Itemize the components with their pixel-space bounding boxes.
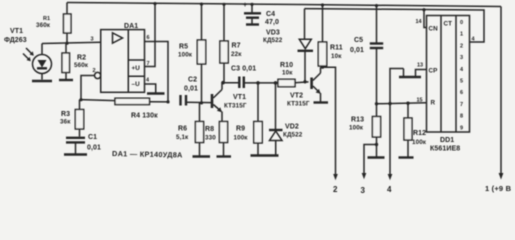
wire +9V right edge drop to terminal 1 [500,7,502,175]
svg-text:VT1: VT1 [233,94,246,101]
ground R13 [368,156,385,158]
svg-text:R8: R8 [205,126,214,133]
ground R2 [59,79,73,81]
svg-text:10к: 10к [331,53,342,60]
wire reset line C5/R13 node to IC R input [377,103,427,104]
svg-text:R: R [431,100,436,107]
svg-text:R13: R13 [351,117,364,124]
svg-text:6: 6 [147,35,150,41]
diode VD3 KD522 [304,9,306,40]
svg-text:0,01: 0,01 [184,86,198,93]
transistor VT2 KT315G [310,78,313,90]
svg-text:14: 14 [416,19,423,25]
op-amp inverting input bubble pin 2 [95,72,101,78]
svg-text:R6: R6 [178,126,187,133]
svg-text:VT2: VT2 [290,93,303,100]
transistor VT1 KT315G [211,94,214,108]
wire terminal 3 [364,145,377,175]
wire CN input pin 14 [424,10,427,28]
svg-text:С5: С5 [354,37,363,44]
resistor R9 100k [257,83,259,122]
ground -U [147,92,165,94]
svg-text:330: 330 [205,135,216,142]
ground VT2 emitter [314,101,329,103]
resistor R13 100k [372,117,380,138]
diode VD2 KD522 [275,83,277,130]
svg-text:15: 15 [417,98,423,104]
svg-text:R11: R11 [330,45,343,52]
resistor R12 100k [407,103,409,118]
svg-text:22к: 22к [231,51,242,58]
svg-text:–U: –U [132,81,141,88]
wire photodiode node to op-amp pin 3 [42,42,101,43]
wire terminal 4 stub to ground [403,69,405,77]
capacitor C3 0,01 [238,77,240,89]
svg-text:КТ315Г: КТ315Г [287,101,310,108]
svg-text:С1: С1 [88,134,97,141]
terminal 2 arrowhead [333,174,338,180]
svg-text:560к: 560к [74,62,89,69]
svg-text:VD3: VD3 [266,30,280,37]
svg-text:1 (+9 В: 1 (+9 В [485,184,512,193]
capacitor C5 0,01 [376,6,378,44]
svg-text:5,1к: 5,1к [176,134,189,141]
svg-text:2: 2 [460,43,463,49]
resistor R1 360k [66,3,68,15]
resistor R4 130k [115,98,150,104]
svg-text:CN: CN [429,26,439,33]
wire C3 to R10 [244,82,278,84]
svg-text:2: 2 [93,68,96,74]
svg-text:R4 130к: R4 130к [131,113,158,120]
svg-text:3: 3 [361,186,366,195]
svg-text:DD1: DD1 [440,137,454,144]
svg-text:+U: +U [132,65,141,72]
wire collector node to terminal 2 [321,67,336,175]
svg-text:КД522: КД522 [263,37,283,44]
capacitor C2 0,01 coupling [179,95,181,106]
wire inverting input [81,76,95,100]
svg-text:С2: С2 [188,77,197,84]
svg-text:DA1 — КР140УД8А: DA1 — КР140УД8А [112,149,183,159]
wire terminal 4 [390,69,404,176]
svg-text:С3 0,01: С3 0,01 [231,66,256,73]
op-amp +U pin 7 wire to rail [145,4,156,67]
svg-text:3: 3 [91,37,94,43]
svg-text:3: 3 [460,55,463,61]
terminal 3 arrowhead [362,173,367,179]
resistor R5 100k [201,4,203,40]
svg-text:7: 7 [460,102,463,108]
wire VT1 collector line to C3 [222,82,239,84]
svg-text:R2: R2 [77,55,86,62]
svg-text:100к: 100к [178,52,193,59]
svg-text:R9: R9 [236,126,245,133]
resistor R11 10k [322,5,324,42]
svg-text:К561ИЕ8: К561ИЕ8 [430,146,460,153]
svg-text:13: 13 [417,63,423,69]
ground photodiode [32,80,52,82]
svg-text:100к: 100к [234,135,249,142]
node dot R1/R2 junction [65,42,68,45]
svg-text:ФД263: ФД263 [4,37,27,44]
ground CP [399,76,421,78]
svg-text:КД522: КД522 [283,132,303,139]
counter IC DD1 K561IE8 box [427,16,470,133]
svg-text:С4: С4 [266,11,275,18]
svg-text:47,0: 47,0 [265,19,279,26]
op-amp triangle symbol [113,33,123,43]
svg-text:CP: CP [429,68,438,75]
svg-text:R7: R7 [232,43,241,50]
capacitor C1 0,01 [66,137,85,139]
wire feedback/base line [81,100,115,101]
svg-text:0: 0 [460,20,463,26]
svg-text:VT1: VT1 [10,28,23,35]
ground R12 [399,156,414,158]
svg-text:0,01: 0,01 [350,47,364,54]
op-amp -U pin 4 wire [145,84,156,93]
resistor R6 5,1k [199,103,201,122]
svg-text:4: 4 [387,185,392,194]
ground R6 [193,155,211,157]
svg-text:360к: 360к [36,22,51,29]
ground C1 [64,153,87,155]
svg-text:0,01: 0,01 [87,145,101,152]
svg-text:+: + [243,2,247,9]
svg-text:R10: R10 [280,62,293,69]
ground R9/VD2 [251,154,279,156]
svg-text:DA1: DA1 [124,23,138,30]
resistor R7 22k [223,4,225,41]
svg-text:10к: 10к [282,70,293,77]
svg-text:1: 1 [460,32,463,38]
photodiode VT1 FD263 [41,44,43,55]
svg-text:100к: 100к [349,125,364,132]
svg-text:2: 2 [333,185,338,194]
svg-text:36к: 36к [60,119,71,126]
op-amp DA1 box [101,30,145,93]
svg-text:6: 6 [460,90,463,96]
ground R8 [217,155,232,157]
svg-text:КТ315Г: КТ315Г [224,103,247,110]
op-amp output pin 6 wire [145,42,169,102]
svg-text:5: 5 [460,79,463,85]
svg-text:R3: R3 [61,111,70,118]
capacitor C4 47,0 electrolytic [251,4,253,13]
wire CP input ground stub [416,70,427,77]
wire output2 feedback line [305,9,485,42]
svg-text:9: 9 [460,125,463,131]
resistor R2 560k [65,43,67,53]
svg-text:100к: 100к [412,139,427,146]
ground C4 [246,23,259,25]
terminal 1 arrowhead [499,173,504,180]
resistor R3 36k [79,100,81,110]
svg-text:R12: R12 [413,130,426,137]
wire +9V top rail [67,3,501,7]
svg-text:7: 7 [147,61,150,67]
svg-text:VD2: VD2 [285,124,299,131]
svg-text:R5: R5 [179,44,188,51]
resistor R8 330 [219,122,227,143]
terminal 4 arrowhead [388,174,393,180]
svg-text:CT: CT [444,21,453,28]
light arrows into photodiode [26,48,33,55]
svg-text:8: 8 [460,114,463,120]
resistor R10 10k [278,79,295,86]
